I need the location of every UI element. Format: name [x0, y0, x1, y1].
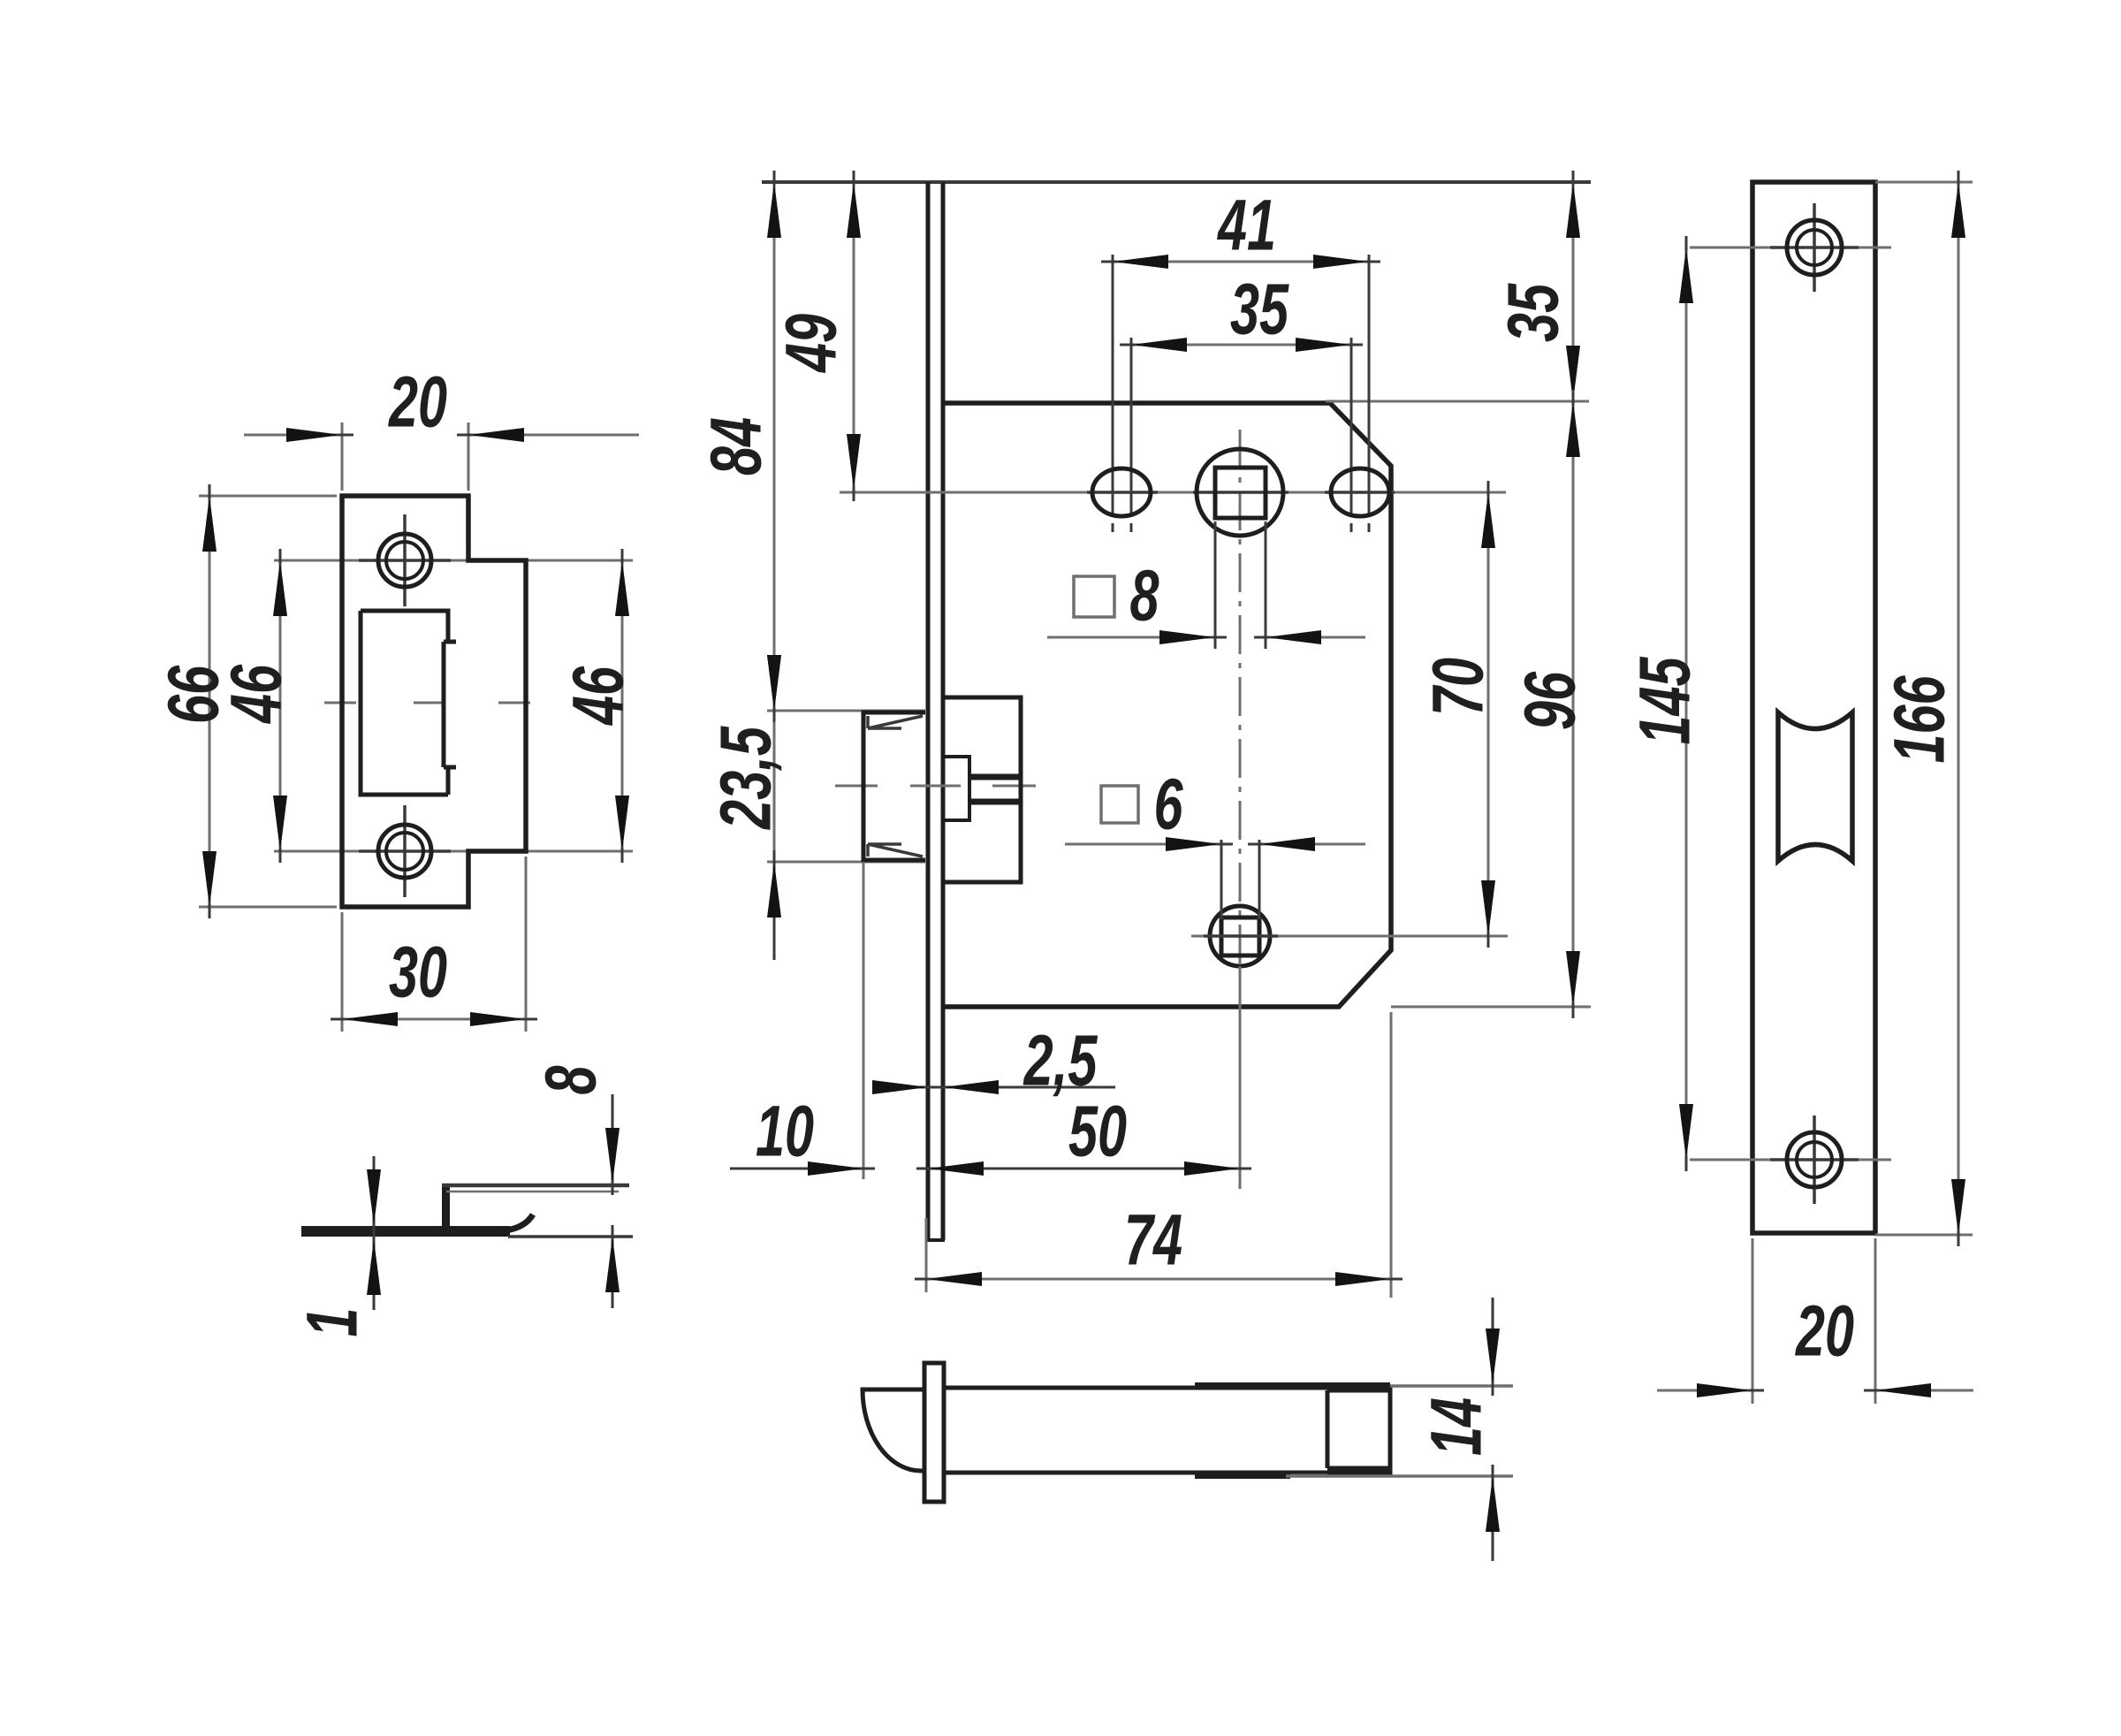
dimension 41: [1113, 261, 1369, 263]
dimension 14: [1390, 1384, 1513, 1388]
strike side view lip: [442, 1184, 450, 1230]
strike plate screw centerline top: [274, 560, 633, 562]
dimension 49: [853, 182, 855, 490]
knob spindle hole: [1210, 906, 1270, 966]
handle row dark segment: [1193, 491, 1289, 494]
svg-text:35: 35: [1494, 283, 1574, 342]
svg-text:49: 49: [772, 314, 852, 374]
strike plate screw hole top: [359, 559, 451, 562]
svg-text:96: 96: [1510, 671, 1591, 730]
strike plate screw centerline bottom: [274, 850, 633, 853]
dimension 10: [730, 1168, 863, 1170]
case bottom edge extension right: [1391, 1006, 1591, 1009]
latch side view faceplate section: [924, 1363, 944, 1502]
square 6 extension lines: [1220, 840, 1223, 919]
latch side view body: [944, 1388, 1390, 1473]
latch plunger: [943, 757, 969, 820]
dimension 96: [1572, 401, 1575, 1007]
latch tail block: [943, 697, 1021, 882]
faceplate latch cutout: [1778, 712, 1852, 861]
svg-text:46: 46: [217, 664, 297, 724]
dimension 30 strike: [341, 912, 344, 1032]
knob row centerline: [1191, 935, 1508, 938]
svg-text:6: 6: [1154, 765, 1184, 845]
lock case outline: [943, 403, 1391, 1007]
svg-text:41: 41: [1217, 186, 1276, 266]
latch bolt front view: [767, 710, 925, 712]
extension line latch front face: [863, 862, 865, 1179]
svg-text:20: 20: [1795, 1291, 1854, 1372]
dimension 166: [1875, 181, 1973, 184]
svg-text:74: 74: [1124, 1200, 1182, 1281]
extension line knob axis: [1239, 966, 1242, 1189]
dimension square 6: [1065, 843, 1221, 846]
latch side view top plate: [1195, 1382, 1390, 1390]
strike plate horizontal centerline: [324, 702, 356, 704]
dimension 2.5: [875, 1086, 928, 1089]
svg-text:23,5: 23,5: [706, 726, 787, 830]
svg-text:46: 46: [559, 666, 639, 726]
handle spindle vertical centerline: [1239, 430, 1242, 983]
svg-text:30: 30: [389, 933, 447, 1013]
dimension 23.5: [773, 711, 776, 862]
square 8 extension lines: [1214, 522, 1217, 649]
dimension square 8: [1047, 636, 1215, 639]
dimension 74: [925, 1218, 928, 1292]
dimension 20 strike: [341, 423, 344, 491]
svg-text:8: 8: [1130, 556, 1159, 636]
lock faceplate edge strip: [926, 182, 931, 1240]
handle row centerline: [840, 491, 1506, 494]
dimension 66 strike: [199, 495, 337, 498]
dimension 46 strike left: [279, 560, 282, 851]
dimension 145: [1685, 247, 1688, 1160]
svg-text:8: 8: [531, 1065, 612, 1094]
case front edge extension right: [1326, 400, 1589, 403]
dimension 70: [1487, 492, 1490, 936]
latch side view head: [863, 1390, 924, 1471]
svg-text:1: 1: [293, 1308, 373, 1337]
handle spindle hole: [1197, 449, 1283, 536]
strike plate outline: [342, 496, 526, 907]
svg-text:35: 35: [1230, 270, 1289, 350]
lock screw slot right: [1325, 491, 1395, 494]
faceplate screw hole top: [1690, 247, 1891, 249]
dimension 35 top: [1131, 344, 1351, 346]
svg-text:50: 50: [1068, 1092, 1127, 1172]
svg-text:70: 70: [1418, 658, 1499, 716]
screw slot extension lines: [1112, 255, 1114, 517]
dimension 84: [773, 182, 776, 711]
dimension 46 strike right: [621, 560, 624, 851]
latch spring bars: [969, 774, 1021, 780]
top reference line: [762, 180, 1591, 184]
dimension 50: [928, 1168, 1240, 1170]
dimension 8 strike side: [508, 1235, 633, 1238]
lock screw slot left: [1087, 491, 1158, 494]
latch side view end block: [1327, 1390, 1390, 1468]
latch side view bottom plate: [1195, 1472, 1290, 1479]
dimension 1 strike side: [373, 1156, 376, 1225]
latch bolt bevel marks: [868, 716, 923, 728]
faceplate screw hole bottom: [1690, 1159, 1891, 1161]
svg-text:2,5: 2,5: [1022, 1021, 1098, 1101]
svg-text:10: 10: [756, 1092, 814, 1172]
faceplate outline: [1752, 182, 1875, 1233]
strike side view curled tip: [506, 1214, 533, 1230]
svg-text:166: 166: [1880, 675, 1960, 764]
svg-text:20: 20: [388, 362, 447, 443]
strike plate latch opening: [361, 611, 456, 795]
strike plate screw hole bottom: [359, 849, 451, 853]
dimension 20 faceplate: [1752, 1238, 1754, 1404]
dimension 35 right: [1572, 182, 1575, 401]
svg-text:14: 14: [1417, 1397, 1497, 1456]
strike side view flat plate: [301, 1226, 510, 1237]
latch bolt centerline: [835, 785, 878, 788]
svg-text:84: 84: [696, 417, 777, 476]
svg-text:145: 145: [1625, 657, 1706, 745]
